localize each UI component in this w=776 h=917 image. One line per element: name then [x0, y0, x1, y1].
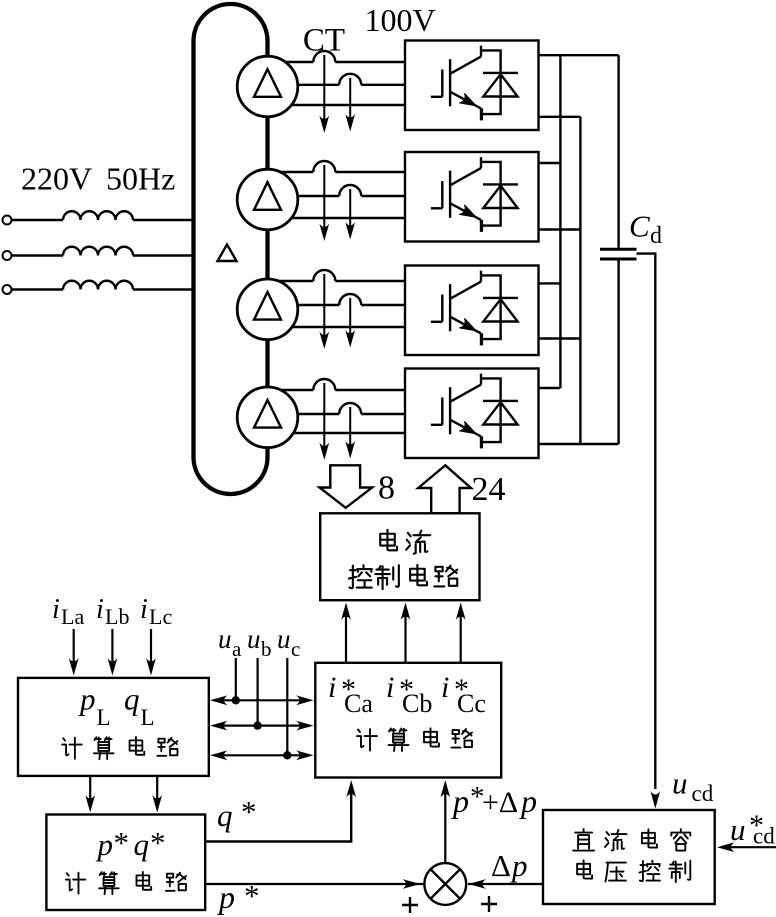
svg-text:q: q — [134, 827, 150, 862]
svg-text:i: i — [328, 671, 336, 704]
svg-text:i: i — [52, 594, 60, 625]
svg-text:i: i — [140, 594, 148, 625]
bus wire A (positive) — [559, 55, 561, 388]
wire U2 + output stub — [539, 162, 561, 164]
svg-text:50Hz: 50Hz — [106, 161, 175, 197]
svg-text:u: u — [277, 624, 291, 654]
svg-text:Lb: Lb — [105, 604, 129, 629]
wire U3 + output stub — [539, 282, 561, 284]
svg-text:L: L — [141, 705, 155, 730]
CT row 2 arrow b — [349, 189, 351, 227]
wire ucd arrow into DC voltage control — [650, 791, 660, 809]
svg-text:d: d — [650, 223, 662, 249]
transformer winding W3 — [237, 279, 298, 340]
svg-text:b: b — [261, 637, 272, 661]
wire winding W3 line 1 with CT — [268, 280, 314, 282]
node uc junction dot — [283, 751, 291, 759]
svg-text:u: u — [247, 624, 261, 654]
wire winding W2 line 3 — [268, 217, 406, 219]
svg-text:c: c — [291, 637, 300, 661]
svg-text:q: q — [217, 798, 233, 833]
svg-text:p: p — [96, 827, 114, 862]
wire terminal c to inductor — [12, 288, 64, 290]
wire terminal a to inductor — [12, 219, 64, 221]
CT row 4 arrow a — [323, 383, 325, 447]
inductor Lb — [63, 247, 133, 256]
node ua junction dot — [232, 696, 240, 704]
svg-text:p: p — [519, 783, 537, 819]
CT row 1 arrow b — [349, 78, 351, 119]
wire p*+dp up into i*C calc — [444, 793, 446, 863]
wire U1 - output stub — [539, 116, 581, 118]
svg-text:a: a — [232, 637, 242, 661]
wire winding W1 line 1 with CT — [268, 61, 314, 63]
converter module U4 (IGBT + diode) — [405, 369, 539, 459]
wire winding W2 line 1 with CT — [268, 171, 314, 173]
block: p* q* calculation circuit — [46, 815, 205, 911]
svg-text:i: i — [441, 671, 449, 704]
transformer winding W1 — [237, 56, 298, 117]
wire capacitor tap jog — [637, 254, 656, 789]
wire q* — [205, 793, 351, 842]
svg-text:p: p — [451, 783, 469, 819]
wire U1 + output stub — [539, 54, 619, 56]
block: current control circuit (dianliu kongzhi dianlu) — [320, 513, 479, 600]
svg-text:24: 24 — [472, 471, 506, 508]
svg-text:L: L — [97, 705, 111, 730]
capacitor Cd — [600, 248, 637, 251]
svg-text:220V: 220V — [21, 161, 92, 197]
label + (left) — [402, 897, 418, 913]
wire U3 - output stub — [539, 337, 581, 339]
transformer winding W4 — [237, 387, 298, 448]
wire winding W4 line 3 — [268, 432, 406, 434]
block: pL qL calculation circuit — [18, 678, 209, 776]
source terminal c — [3, 285, 12, 294]
svg-text:100V: 100V — [364, 2, 435, 38]
svg-text:u: u — [730, 812, 746, 847]
bidirectional wires between pLqL and i*C calc — [222, 699, 302, 701]
wire winding W1 line 3 — [268, 104, 406, 106]
wire u*cd reference input — [728, 846, 776, 848]
svg-text:cd: cd — [692, 781, 714, 806]
inductor La — [63, 211, 133, 220]
CT row 3 arrow b — [349, 298, 351, 335]
inductor Lc — [63, 281, 133, 290]
svg-text:Ca: Ca — [344, 689, 373, 718]
transformer T1 primary outline (stadium) — [194, 4, 268, 494]
wire terminal b to inductor — [12, 254, 64, 256]
svg-text:La: La — [61, 604, 84, 629]
svg-text:cd: cd — [753, 824, 775, 849]
wire winding W3 line 2 with CT — [268, 304, 340, 306]
delta symbol (primary connection) — [218, 245, 237, 262]
wire winding W3 line 3 — [268, 326, 406, 328]
wire winding W1 line 2 with CT — [268, 84, 340, 86]
wire U2 - output stub — [539, 228, 581, 230]
label + (right) — [481, 896, 497, 912]
arrows iL into pLqL block — [73, 629, 75, 663]
arrows pLqL to p*q* block — [89, 776, 91, 800]
wire inductor to transformer (b) — [133, 254, 194, 256]
svg-text:i: i — [96, 594, 104, 625]
block arrow 8 (gate signals down) — [320, 465, 373, 508]
wire U4 - output stub — [539, 443, 619, 445]
wires ua ub uc drop lines — [235, 658, 237, 700]
svg-text:u: u — [218, 624, 232, 654]
svg-text:p: p — [510, 848, 528, 883]
wire inductor to transformer (a) — [133, 219, 194, 221]
block: DC capacitor voltage control — [543, 810, 715, 904]
svg-text:Cc: Cc — [457, 689, 486, 718]
CT row 3 arrow a — [323, 274, 325, 336]
svg-text:Cb: Cb — [402, 689, 432, 718]
svg-text:p: p — [217, 879, 235, 915]
wire winding W2 line 2 with CT — [268, 195, 340, 197]
converter module U2 (IGBT + diode) — [405, 152, 539, 242]
svg-text:*: * — [150, 825, 166, 860]
source terminal a — [3, 216, 12, 225]
svg-text:q: q — [124, 682, 140, 717]
CT row 1 arrow a — [323, 55, 325, 120]
wire winding W4 line 1 with CT — [268, 389, 314, 391]
svg-text:p: p — [78, 682, 96, 717]
arrows calculation to current-control — [345, 615, 347, 663]
wire p* into summing junction — [204, 883, 424, 885]
svg-text:*: * — [114, 825, 130, 860]
svg-text:8: 8 — [378, 470, 395, 507]
converter module U3 (IGBT + diode) — [405, 266, 539, 356]
CT row 4 arrow b — [349, 407, 351, 446]
bus wire C to capacitor top — [617, 55, 619, 249]
svg-text:+Δ: +Δ — [482, 786, 518, 819]
svg-text:i: i — [386, 671, 394, 704]
block: i*C calculation circuit — [315, 663, 501, 778]
node ub junction dot — [253, 721, 261, 729]
wire dp from DC control to summing junction — [468, 883, 543, 885]
bus wire C capacitor bottom to U4 — [617, 259, 619, 444]
converter module U1 (IGBT + diode) — [405, 41, 539, 131]
wire U4 + output stub — [539, 387, 561, 389]
wire winding W4 line 2 with CT — [268, 413, 340, 415]
summing junction — [424, 863, 466, 905]
svg-text:Δ: Δ — [491, 848, 511, 883]
svg-text:CT: CT — [303, 23, 345, 59]
block arrow 24 (signals up) — [418, 465, 471, 513]
svg-text:*: * — [241, 794, 257, 829]
svg-text:Lc: Lc — [149, 604, 172, 629]
svg-text:C: C — [629, 209, 650, 244]
transformer winding W2 — [237, 169, 298, 230]
source terminal b — [3, 251, 12, 260]
bus wire B (negative) — [579, 117, 581, 444]
svg-text:u: u — [672, 766, 688, 801]
CT row 2 arrow a — [323, 165, 325, 228]
wire inductor to transformer (c) — [133, 288, 194, 290]
svg-text:*: * — [244, 878, 260, 913]
